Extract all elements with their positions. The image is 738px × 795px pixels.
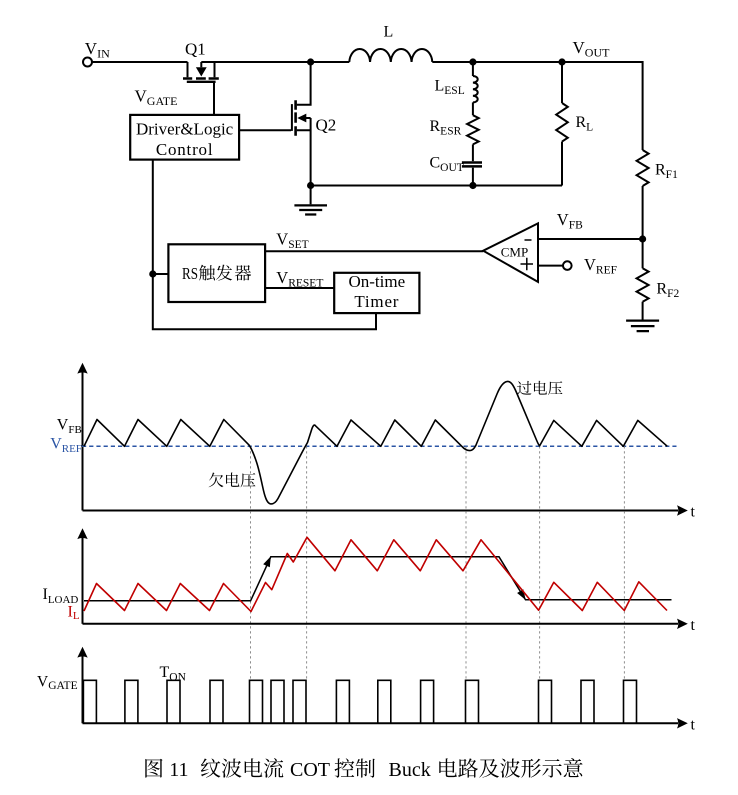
node COUT branch top [469,58,476,65]
svg-text:COT: COT [290,759,330,781]
wire comparator plus input to VREF terminal [538,265,563,267]
inductor L [349,49,432,62]
block U4 On-time Timer [334,272,419,313]
svg-text:Timer: Timer [354,292,399,311]
resistor RF1 [637,150,649,239]
wire VRESET RS to timer [265,287,334,289]
wire driver to Q2 gate [239,129,291,131]
wire Q1 drain to switch node [201,61,310,63]
svg-text:Buck: Buck [389,759,431,781]
wire Q1 gate to driver block [213,82,215,115]
plot1 VFB waveform [84,381,667,504]
transistor Q2 [292,62,311,136]
node Q2 source junction [307,182,314,189]
resistor RL [556,62,568,186]
svg-text:Control: Control [156,140,214,159]
label undervoltage [209,473,256,488]
op-amp U2 CMP comparator [483,223,538,282]
block U1 Driver&Logic Control [130,115,239,160]
node VFB [639,235,646,242]
node COUT bottom [469,182,476,189]
caption figure 11 [145,758,582,781]
svg-text:Driver&Logic: Driver&Logic [136,120,234,139]
svg-text:RS: RS [182,264,198,283]
wire VOUT to RF1 [562,62,643,150]
terminal VIN [83,58,92,67]
plot1 y-axis [77,363,87,511]
node switch node [307,58,314,65]
inductor LESL [473,62,478,102]
wire switch node to L [311,61,350,63]
terminal VREF [563,261,572,270]
guide dashed verticals [251,446,625,680]
svg-text:t: t [691,504,696,521]
plot2 ILOAD average line [84,556,672,601]
label overvoltage [517,381,562,395]
block U3 RS flip-flop [168,244,265,302]
ground GND2 [626,321,659,332]
wire Q2 source to ground node [310,118,312,186]
plot2 x-axis [83,619,688,629]
ground GND1 [294,186,327,215]
svg-text:t: t [691,617,696,634]
resistor RESR [467,102,479,144]
svg-text:t: t [691,717,696,734]
plot2 IL waveform [84,537,667,611]
wire VSET comparator output to RS flip-flop [265,250,483,252]
plot2 y-axis [77,528,87,624]
wire output ground rail [311,185,562,187]
svg-text:11: 11 [169,759,188,781]
capacitor COUT [462,144,482,185]
node feedback junction [149,270,156,277]
svg-text:CMP: CMP [501,245,528,260]
svg-text:Q2: Q2 [316,116,337,135]
wire L to output node [432,61,473,63]
plot3 y-axis [77,647,87,724]
VREF dashed level line [82,445,677,447]
svg-text:On-time: On-time [348,272,405,291]
plot3 VGATE pulses [83,680,636,723]
wire driver feedback loop [153,160,376,330]
plot3 x-axis [83,718,688,728]
resistor RF2 [637,239,649,320]
wire VFB node to comparator [538,238,643,240]
node VOUT [558,58,565,65]
svg-text:Q1: Q1 [185,40,206,59]
plot1 x-axis [83,505,688,515]
svg-text:L: L [384,24,394,41]
wire output node to VOUT node [473,61,562,63]
transistor Q1 [183,62,219,82]
wire VIN to Q1 source [92,61,188,63]
